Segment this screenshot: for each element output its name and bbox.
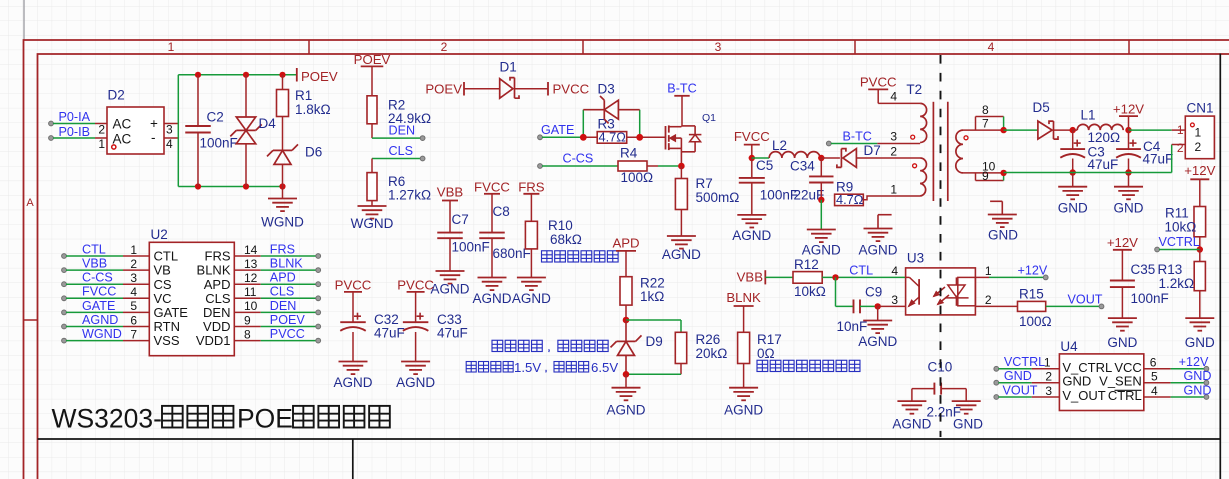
designator D1 (500, 60, 517, 75)
svg-text:100nF: 100nF (452, 240, 490, 255)
svg-text:PVCC: PVCC (553, 82, 590, 97)
value 100 ohm of R15 (1019, 314, 1052, 329)
designator C32 (374, 312, 399, 327)
svg-text:47uF: 47uF (437, 326, 468, 341)
resistor R17 (738, 332, 750, 387)
svg-text:8: 8 (982, 103, 989, 117)
svg-text:RTN: RTN (154, 319, 180, 334)
wire CLS (372, 158, 423, 160)
ground name WGND under R6 (351, 216, 394, 231)
pin number 4 of T2 (890, 90, 897, 104)
pin 8 of U2 net PVCC (196, 327, 321, 348)
designator C9 (865, 284, 882, 299)
designator D7 (864, 143, 881, 158)
svg-text:3: 3 (891, 293, 898, 307)
designator Q1 (702, 112, 716, 124)
transformer T2 pin7 lead (963, 129, 1004, 131)
svg-text:1: 1 (890, 182, 897, 196)
pin number 3 of D2 (166, 123, 173, 137)
value 20k of R26 (696, 346, 728, 361)
ground WGND input (268, 187, 297, 212)
designator L2 (772, 138, 787, 153)
junction R3 right (636, 134, 643, 141)
border row letter A (26, 197, 34, 209)
value 10nF of C9 (837, 319, 868, 334)
value 47uF of C33 (437, 326, 468, 341)
resistor R22 (620, 277, 632, 320)
value 10k of R11 (1165, 219, 1197, 234)
capacitor C8 (479, 233, 505, 278)
svg-text:PVCC: PVCC (335, 278, 372, 293)
svg-text:3: 3 (1045, 384, 1052, 398)
svg-text:3: 3 (130, 271, 137, 285)
net flag B-TC at Q1 drain (667, 82, 696, 127)
svg-text:AGND: AGND (333, 375, 372, 390)
svg-text:D4: D4 (259, 116, 277, 131)
svg-text:AGND: AGND (396, 375, 435, 390)
svg-text:+12V: +12V (1107, 235, 1138, 250)
pin 7 of U2 net WGND (62, 327, 180, 348)
svg-text:CTL: CTL (154, 249, 179, 264)
capacitor C5 (739, 158, 765, 215)
power flag POEV above R2 (354, 52, 391, 96)
ground AGND under C5 (737, 215, 766, 228)
power flag PVCC at T2 pin4 (860, 75, 897, 104)
resistor R9 box (835, 194, 864, 205)
isolation barrier dashed line (940, 55, 942, 437)
svg-text:C2: C2 (207, 110, 224, 125)
svg-text:AGND: AGND (802, 243, 841, 258)
connector CN1 (1185, 116, 1214, 159)
svg-text:C5: C5 (756, 158, 773, 173)
designator C7 (452, 212, 469, 227)
pin number 2 of D2 (98, 123, 105, 137)
wire secondary bottom rail (1004, 172, 1172, 174)
svg-text:1: 1 (98, 137, 105, 151)
svg-text:12: 12 (244, 271, 258, 285)
svg-text:+: + (150, 116, 158, 131)
annotation startup threshold 1.5V limit 6.5V (466, 360, 618, 375)
capacitor C10 (912, 383, 966, 402)
zener diode D6 (267, 144, 298, 186)
svg-text:3: 3 (890, 129, 897, 143)
svg-text:5: 5 (1151, 370, 1158, 384)
value 47uF of C4 (1143, 152, 1174, 167)
wire R26 bottom to D9 (626, 373, 681, 375)
designator C8 (493, 204, 510, 219)
pin 1 of U2 net CTL (62, 242, 178, 263)
svg-text:10kΩ: 10kΩ (794, 284, 826, 299)
pin 3 of U2 net C-CS (62, 271, 172, 292)
svg-text:P0-IA: P0-IA (59, 110, 91, 124)
svg-text:5: 5 (130, 299, 137, 313)
power flag POEV at D1 (425, 82, 464, 97)
svg-text:AGND: AGND (82, 313, 118, 327)
ground name AGND at C9 (858, 334, 897, 349)
svg-text:POEV: POEV (270, 313, 306, 327)
pin number 2 of T2 (890, 144, 897, 158)
wire C34 bottom to ground (820, 200, 822, 230)
svg-text:2: 2 (1177, 141, 1184, 155)
junction C34 bottom R9 node (818, 197, 824, 203)
svg-text:BLNK: BLNK (270, 257, 303, 271)
resistor R4 (618, 161, 658, 171)
value 0 ohm of R17 (757, 346, 775, 361)
svg-text:VCTRL: VCTRL (1004, 355, 1045, 369)
pin number 1 of CN1 (1177, 123, 1184, 137)
transformer T2 secondary winding (956, 130, 963, 173)
svg-text:PVCC: PVCC (397, 278, 434, 293)
svg-text:R1: R1 (295, 88, 312, 103)
svg-text:D9: D9 (646, 334, 663, 349)
pin 1 of U4 net VCTRL (994, 355, 1112, 375)
svg-text:100Ω: 100Ω (621, 170, 654, 185)
wire C9 to U3 pin3 (878, 305, 906, 307)
designator R2 (388, 98, 405, 113)
svg-text:AGND: AGND (858, 243, 897, 258)
svg-text:POE: POE (237, 404, 293, 434)
ground name GND hook secondary (988, 227, 1018, 242)
pin 6 of U2 net AGND (62, 313, 180, 334)
wire pin10 to pin9 join (1003, 173, 1005, 181)
svg-text:DEN: DEN (270, 299, 297, 313)
pin number 9 of T2 (982, 169, 989, 183)
designator D9 (646, 334, 663, 349)
svg-text:C7: C7 (452, 212, 469, 227)
svg-text:VB: VB (154, 263, 171, 278)
svg-text:C8: C8 (493, 204, 510, 219)
power flag PVCC at C33 (397, 278, 434, 323)
svg-text:APD: APD (204, 277, 231, 292)
pin 10 of U2 net DEN (203, 299, 321, 320)
svg-text:4: 4 (130, 285, 137, 299)
svg-text:VDD: VDD (203, 319, 230, 334)
svg-text:VBB: VBB (82, 257, 107, 271)
svg-text:2: 2 (985, 293, 992, 307)
transformer T2 pin8 lead (976, 117, 1004, 131)
designator R11 (1165, 206, 1189, 221)
junction APD divider bottom (623, 371, 630, 378)
svg-text:P0-IB: P0-IB (59, 125, 91, 139)
ic U2 body (149, 242, 234, 355)
svg-text:C34: C34 (790, 159, 815, 174)
junction D5 out (1070, 127, 1076, 133)
net label +12V at U3 (1018, 263, 1048, 277)
node VCTRL terminal (1155, 247, 1160, 252)
svg-text:100nF: 100nF (1131, 291, 1169, 306)
svg-text:U4: U4 (1060, 339, 1078, 354)
inductor L2 (752, 152, 820, 158)
svg-text:1: 1 (985, 264, 992, 278)
designator U3 (907, 251, 924, 266)
power flag VBB at C7 (437, 185, 464, 233)
svg-text:1.2kΩ: 1.2kΩ (1159, 276, 1195, 291)
net label CTL (849, 263, 873, 277)
ground name AGND under R17 (724, 403, 763, 418)
pin number 1 of D2 (98, 137, 105, 151)
svg-text:D5: D5 (1033, 100, 1050, 115)
designator C35 (1131, 262, 1156, 277)
junction Q1 source node (678, 163, 685, 170)
svg-text:C9: C9 (865, 284, 882, 299)
svg-text:FVCC: FVCC (474, 180, 510, 195)
svg-text:U2: U2 (151, 227, 168, 242)
transformer T2 primary winding lower (920, 158, 926, 196)
svg-text:U3: U3 (907, 251, 924, 266)
svg-text:VCTRL: VCTRL (1159, 235, 1200, 249)
designator D2 (108, 88, 125, 103)
value 4.7 ohm of R3 (599, 129, 627, 144)
svg-text:7: 7 (982, 117, 989, 131)
svg-text:VSS: VSS (154, 333, 180, 348)
resistor R1 (277, 75, 289, 151)
resistor R7 (675, 166, 687, 236)
svg-text:L1: L1 (1081, 108, 1096, 123)
power flag FVCC at C8 (474, 180, 510, 233)
svg-text:DEN: DEN (203, 305, 230, 320)
junction L1 out (1125, 127, 1131, 133)
svg-text:+12V: +12V (1184, 163, 1215, 178)
junction top D4 (243, 72, 249, 78)
border column number 3 (715, 40, 722, 54)
wire DEN (372, 137, 423, 139)
svg-text:6: 6 (130, 313, 137, 327)
annotation external input enable supply (492, 340, 608, 352)
svg-text:CLS: CLS (270, 285, 295, 299)
svg-text:VCC: VCC (1114, 360, 1141, 375)
value 47uF of C3 (1088, 157, 1119, 172)
svg-text:1kΩ: 1kΩ (640, 289, 664, 304)
svg-text:47uF: 47uF (374, 326, 405, 341)
svg-text:1: 1 (130, 243, 137, 257)
net label GATE (541, 123, 574, 137)
svg-text:BLNK: BLNK (726, 290, 761, 305)
svg-text:GND: GND (1004, 369, 1032, 383)
svg-text:R7: R7 (696, 176, 713, 191)
svg-text:GND: GND (1114, 201, 1144, 216)
value 10k of R12 (794, 284, 826, 299)
power flag +12V at R11 (1184, 163, 1215, 207)
svg-text:R10: R10 (548, 218, 573, 233)
ground name GND under C4 (1114, 201, 1144, 216)
svg-text:R17: R17 (757, 332, 782, 347)
pin 9 of U2 net POEV (203, 313, 321, 334)
power flag FVCC at C5 (734, 129, 770, 158)
designator R1 (295, 88, 312, 103)
svg-text:C35: C35 (1131, 262, 1156, 277)
title text WS3203 isolated POE switching supply (52, 404, 390, 434)
value 24.9k of R2 (388, 111, 431, 126)
svg-text:V_OUT: V_OUT (1062, 388, 1105, 403)
wire P0-IB (53, 137, 95, 139)
ground AGND at C10 (897, 401, 926, 414)
svg-text:APD: APD (270, 271, 296, 285)
svg-text:68kΩ: 68kΩ (550, 232, 582, 247)
ground name GND under C3 (1058, 201, 1088, 216)
wire P0-IA (53, 123, 95, 125)
svg-text:DEN: DEN (389, 124, 416, 138)
designator T2 (906, 82, 922, 97)
resistor R26 (675, 332, 686, 374)
net label CLS (389, 144, 414, 158)
pin 5 of U2 net GATE (62, 299, 189, 320)
svg-text:FRS: FRS (518, 180, 545, 195)
value 100nF of C5 (760, 188, 798, 203)
svg-text:POEV: POEV (425, 82, 462, 97)
resistor R3 box (597, 132, 627, 144)
wire pin8 to pin7 join (1003, 117, 1005, 131)
wire VCTRL (1159, 249, 1200, 251)
border column number 2 (441, 40, 448, 54)
transformer T2 pin10 lead (963, 172, 1004, 174)
junction top C2 (195, 72, 201, 78)
capacitor C4 (1116, 130, 1141, 172)
svg-text:4: 4 (988, 40, 995, 54)
zener diode D9 (611, 320, 642, 374)
ic U4 body (1059, 354, 1143, 411)
svg-text:B-TC: B-TC (843, 129, 872, 143)
annotation use internal blanking time (757, 360, 860, 371)
svg-text:13: 13 (244, 257, 258, 271)
pin number 2 of U3 (985, 293, 992, 307)
svg-text:100nF: 100nF (760, 188, 798, 203)
svg-text:B-TC: B-TC (667, 82, 696, 96)
svg-text:10nF: 10nF (837, 319, 868, 334)
svg-text:A: A (26, 197, 34, 209)
svg-text:1: 1 (1195, 125, 1202, 139)
designator C33 (437, 312, 462, 327)
capacitor C7 (437, 233, 463, 271)
resistor R13 (1194, 250, 1205, 319)
optocoupler U3 body (906, 268, 976, 315)
wire C-CS (542, 165, 618, 167)
ground name AGND under C34 (802, 243, 841, 258)
power flag VBB at R12 (737, 270, 766, 285)
wire R12 to U3 pin4 net CTL (822, 276, 905, 278)
junction CTL node (832, 274, 838, 280)
capacitor C35 (1110, 281, 1135, 319)
junction R3 left (580, 134, 587, 141)
capacitor C2 (185, 75, 211, 187)
TVS diode D4 (230, 75, 261, 187)
designator C5 (756, 158, 773, 173)
node VOUT terminal (1099, 304, 1104, 309)
svg-text:VOUT: VOUT (1003, 383, 1038, 397)
junction bottom D4 (243, 183, 249, 189)
ground AGND under R10 (517, 278, 546, 291)
value 680nF of C8 (493, 246, 531, 261)
svg-text:20kΩ: 20kΩ (696, 346, 728, 361)
ground WGND under R6 (358, 206, 387, 219)
junction C3 bottom (1070, 169, 1076, 175)
power flag POEV at input (297, 68, 338, 84)
junction FVCC node (749, 155, 755, 161)
ground name AGND under C5 (732, 228, 771, 243)
svg-text:FRS: FRS (270, 242, 295, 256)
svg-text:D7: D7 (864, 143, 881, 158)
node GATE terminal (538, 135, 543, 140)
ground name AGND under C8 (472, 291, 511, 306)
ground name AGND at C10 (892, 417, 931, 432)
pin 14 of U2 net FRS (205, 242, 321, 263)
designator D5 (1033, 100, 1050, 115)
wire bottom rail (178, 186, 282, 188)
schottky diode D5 (1038, 121, 1073, 139)
svg-text:2: 2 (441, 40, 448, 54)
svg-text:R9: R9 (836, 180, 853, 195)
svg-text:FVCC: FVCC (734, 129, 770, 144)
designator R6 (388, 174, 405, 189)
junction L2 C34 D7 node (818, 155, 824, 161)
value 1.27k of R6 (388, 188, 431, 203)
designator U2 (151, 227, 168, 242)
designator C10 (928, 360, 953, 375)
value 120 ohm of L1 (1088, 130, 1121, 145)
value 100nF of C7 (452, 240, 490, 255)
svg-text:R15: R15 (1019, 286, 1044, 301)
net label P0-IA (59, 110, 91, 124)
ground name AGND under R10 (512, 291, 551, 306)
border row tick (24, 319, 38, 321)
svg-text:WS3203-: WS3203- (52, 404, 162, 434)
svg-text:Q1: Q1 (702, 112, 716, 124)
svg-text:VC: VC (154, 291, 172, 306)
svg-text:AGND: AGND (732, 228, 771, 243)
svg-text:100nF: 100nF (200, 136, 238, 151)
designator C34 (790, 159, 815, 174)
ground AGND under R17 (729, 388, 758, 401)
svg-text:GND: GND (1107, 335, 1137, 350)
wire CTL down to C9 (836, 277, 854, 306)
svg-text:100Ω: 100Ω (1019, 314, 1052, 329)
polarity dot T2 primary upper (911, 135, 915, 139)
svg-text:PVCC: PVCC (270, 327, 305, 341)
designator D4 (259, 116, 277, 131)
ground name WGND input (261, 215, 304, 230)
svg-text:VDD1: VDD1 (196, 333, 231, 348)
ground name AGND under R7 (662, 247, 701, 262)
power flag PVCC at C32 (335, 278, 372, 323)
svg-text:C-CS: C-CS (82, 271, 113, 285)
ground name AGND under C33 (396, 375, 435, 390)
svg-text:CTL: CTL (849, 263, 873, 277)
pin number 10 of T2 (982, 159, 996, 173)
designator R13 (1158, 262, 1183, 277)
pin number 4 of D2 (166, 137, 173, 151)
power flag +12V at L1 (1113, 102, 1144, 131)
pin 4 of U4 net GND (1108, 383, 1212, 403)
transformer T2 primary winding upper (920, 103, 927, 142)
wire U3 pin1 to +12V label (975, 276, 1045, 278)
value 68k of R10 (550, 232, 582, 247)
svg-text:1.27kΩ: 1.27kΩ (388, 188, 431, 203)
svg-text:CN1: CN1 (1187, 101, 1214, 116)
svg-text:8: 8 (244, 327, 251, 341)
power flag APD (612, 236, 639, 277)
svg-text:AGND: AGND (606, 403, 645, 418)
wire T2 pin2 (870, 157, 920, 159)
designator C3 (1088, 145, 1105, 160)
value 22uF of C34 (794, 188, 825, 203)
svg-text:AGND: AGND (430, 282, 469, 297)
svg-text:4: 4 (891, 264, 898, 278)
svg-text:WGND: WGND (261, 215, 304, 230)
resistor R15 (1018, 301, 1046, 311)
svg-text:R3: R3 (598, 117, 615, 132)
wire VBB to R12 (765, 276, 793, 278)
svg-text:AGND: AGND (662, 247, 701, 262)
junction bottom C2 (195, 183, 201, 189)
